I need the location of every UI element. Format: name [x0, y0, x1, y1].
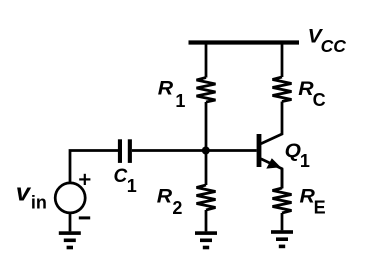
minus sign [79, 216, 90, 219]
wire: RE bottom to ground [281, 213, 284, 230]
resistor RE [273, 188, 292, 213]
svg-text:CC: CC [321, 36, 347, 56]
svg-text:E: E [314, 198, 326, 218]
svg-text:R: R [158, 78, 174, 99]
wire: rail to R1 top [205, 43, 208, 78]
VCC rail [189, 40, 300, 44]
resistor R2 [197, 185, 216, 210]
svg-text:1: 1 [127, 176, 137, 196]
wire: RC bottom to collector corner [261, 102, 282, 144]
ground (vin) [59, 231, 81, 249]
svg-text:R: R [157, 186, 173, 207]
ground (R2) [195, 231, 217, 249]
svg-text:C: C [114, 166, 128, 187]
wire: rail to RC top [281, 43, 284, 78]
transistor Q1 emitter line [261, 159, 282, 189]
plus sign [79, 174, 90, 185]
svg-text:2: 2 [172, 198, 182, 218]
wire: node A to R2 top [205, 151, 208, 186]
capacitor C1 left plate [118, 139, 122, 163]
node A junction dot [202, 147, 210, 155]
svg-text:C: C [313, 90, 326, 110]
resistor RC [273, 77, 292, 102]
source vin circle [55, 183, 85, 213]
wire: node A to base [132, 149, 257, 152]
wire: vin corner to capacitor [70, 151, 118, 184]
wire: R2 bottom to ground [205, 210, 208, 231]
transistor Q1 emitter arrow [266, 158, 281, 168]
transistor Q1 base bar [257, 134, 262, 167]
wire: source bottom to ground [69, 213, 72, 232]
svg-text:v: v [16, 180, 31, 206]
resistor R1 [197, 78, 216, 103]
svg-text:Q: Q [285, 141, 302, 162]
wire: R1 bottom to node A [205, 102, 208, 151]
ground (RE) [271, 230, 293, 248]
capacitor C1 right plate [128, 139, 132, 163]
wire: emitter to RE top [281, 169, 284, 188]
svg-text:in: in [31, 192, 47, 212]
svg-text:1: 1 [300, 151, 310, 171]
svg-text:1: 1 [175, 91, 185, 111]
